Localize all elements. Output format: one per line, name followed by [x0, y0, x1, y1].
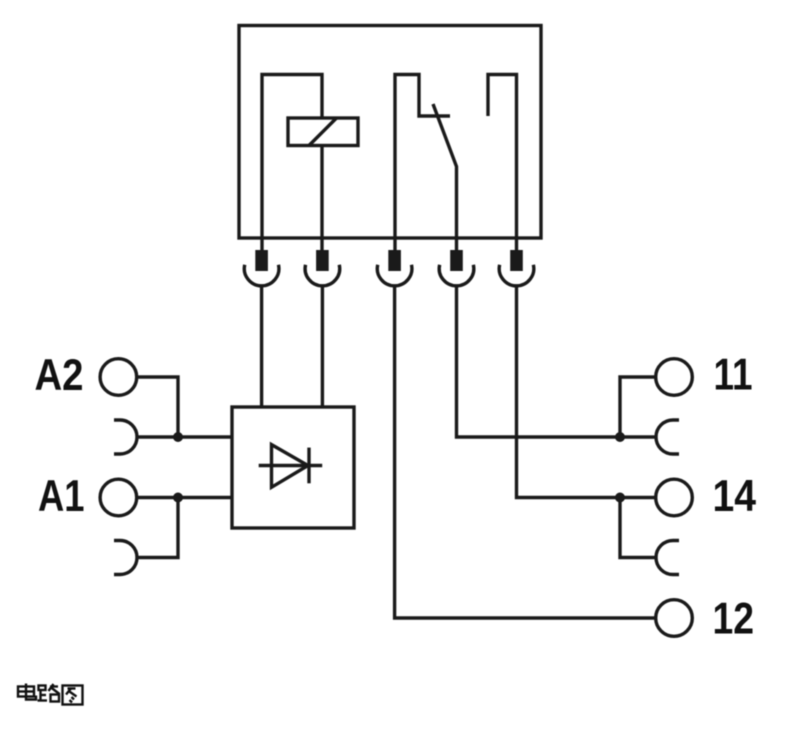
svg-text:A2: A2	[35, 351, 84, 400]
svg-text:12: 12	[713, 595, 755, 644]
svg-text:14: 14	[713, 472, 757, 521]
svg-text:11: 11	[714, 351, 753, 400]
svg-text:A1: A1	[38, 472, 85, 521]
